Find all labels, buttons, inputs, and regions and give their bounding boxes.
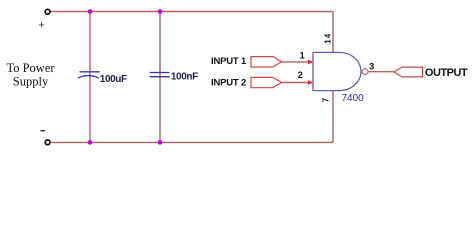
svg-text:14: 14	[323, 33, 332, 44]
svg-text:100uF: 100uF	[100, 74, 127, 85]
svg-text:7400: 7400	[342, 93, 365, 104]
svg-text:2: 2	[298, 70, 303, 80]
svg-text:To Power: To Power	[6, 61, 55, 75]
svg-text:1: 1	[300, 50, 305, 60]
svg-text:100nF: 100nF	[171, 72, 198, 83]
svg-text:OUTPUT: OUTPUT	[425, 67, 468, 79]
svg-text:INPUT 2: INPUT 2	[211, 77, 246, 88]
svg-text:+: +	[38, 20, 44, 32]
svg-text:3: 3	[369, 61, 374, 72]
svg-text:Supply: Supply	[13, 75, 49, 89]
svg-text:INPUT 1: INPUT 1	[211, 56, 247, 67]
svg-text:7: 7	[322, 97, 331, 102]
